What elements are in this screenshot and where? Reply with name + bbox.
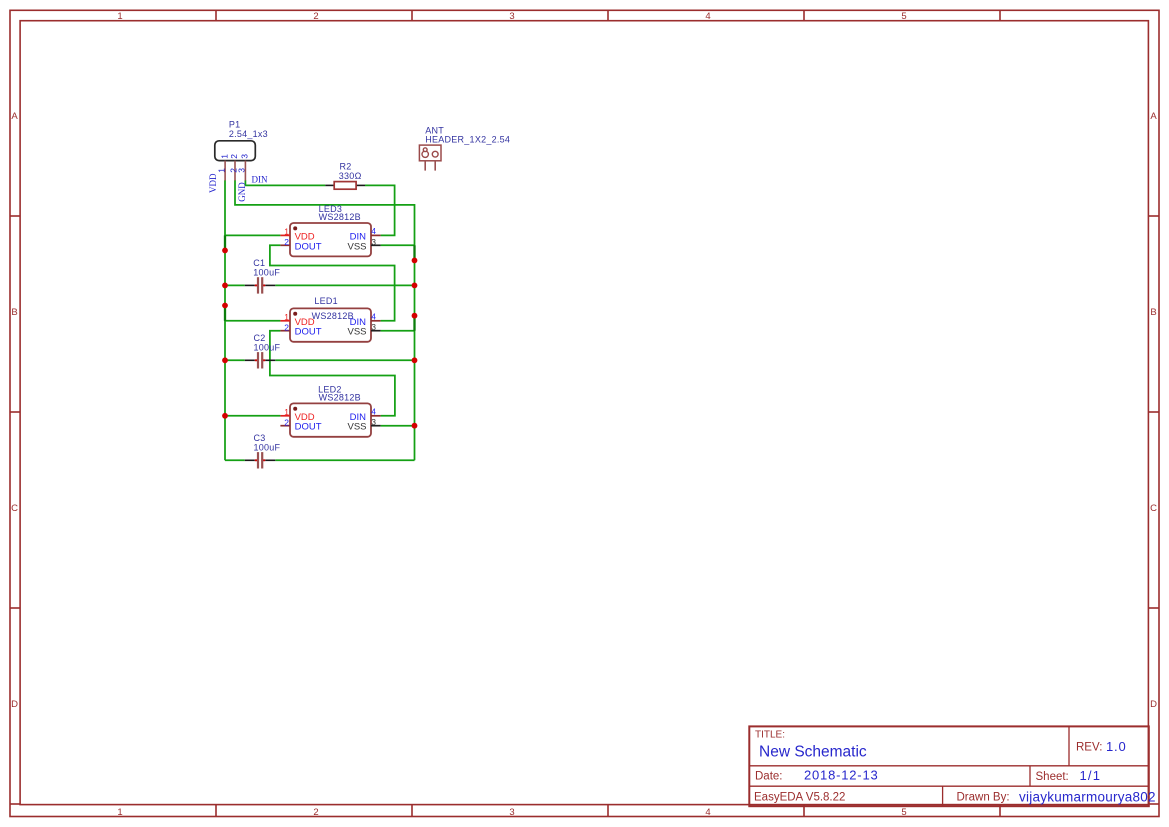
wire LED1 DOUT to LED2 DIN: [270, 331, 395, 416]
svg-text:TITLE:: TITLE:: [755, 730, 785, 741]
junction GND rail / LED1 VSS: [412, 313, 418, 319]
capacitor C2: [245, 333, 281, 369]
pin 3: [371, 425, 381, 427]
pin 3: [371, 330, 381, 332]
pin 3: [371, 244, 381, 246]
svg-text:C2: C2: [254, 333, 266, 343]
wire LED1 VSS to right rail: [381, 330, 415, 332]
wire LED2 VSS to right rail: [381, 425, 415, 427]
svg-text:100uF: 100uF: [254, 343, 281, 353]
pin 1: [424, 161, 426, 171]
svg-text:2.54_1x3: 2.54_1x3: [229, 129, 268, 139]
wire C2 row: [225, 359, 415, 361]
svg-text:VSS: VSS: [347, 327, 366, 338]
junction VDD rail / LED1 VDD: [222, 303, 228, 309]
pin 2: [434, 161, 436, 171]
svg-text:4: 4: [705, 807, 710, 818]
wire overlap on VDD rail at LED3: [224, 235, 226, 250]
pin 2: [280, 330, 290, 332]
wire C1 row: [225, 284, 415, 286]
svg-text:A: A: [11, 111, 18, 122]
pin 1: [280, 415, 290, 417]
junction GND rail / C1: [412, 283, 418, 289]
wire overlap on VDD rail at LED1: [224, 306, 226, 321]
svg-text:2: 2: [284, 237, 289, 247]
connector P1: [215, 120, 268, 181]
svg-text:4: 4: [705, 11, 710, 22]
svg-text:5: 5: [901, 11, 906, 22]
svg-text:3: 3: [371, 322, 376, 332]
svg-text:1: 1: [117, 11, 122, 22]
svg-text:4: 4: [371, 407, 376, 417]
svg-text:2: 2: [229, 154, 239, 159]
svg-text:DOUT: DOUT: [295, 422, 322, 433]
svg-text:VSS: VSS: [347, 241, 366, 252]
wire DIN from P1 pin3 to R2: [245, 180, 325, 185]
svg-text:2: 2: [284, 323, 289, 333]
pin 1: [224, 161, 226, 181]
svg-text:B: B: [11, 307, 17, 318]
svg-text:C: C: [1150, 503, 1157, 514]
junction VDD rail / C1: [222, 283, 228, 289]
svg-text:B: B: [1150, 307, 1156, 318]
svg-text:2018-12-13: 2018-12-13: [804, 767, 879, 782]
wire LED1 VDD pin1 to rail: [225, 320, 280, 322]
pin 2: [234, 161, 236, 181]
svg-text:P1: P1: [229, 120, 241, 130]
svg-text:C: C: [11, 503, 18, 514]
svg-text:3: 3: [237, 168, 247, 173]
connector ANT: [419, 125, 510, 170]
capacitor C3: [245, 433, 281, 469]
wire LED3 VSS to right rail: [381, 244, 415, 246]
svg-text:Date:: Date:: [755, 770, 783, 782]
svg-text:EasyEDA V5.8.22: EasyEDA V5.8.22: [754, 792, 845, 804]
resistor leads: [325, 184, 334, 186]
svg-text:3: 3: [371, 237, 376, 247]
svg-text:4: 4: [371, 312, 376, 322]
wire VDD rail from P1 pin1 down: [224, 180, 226, 460]
connector body: [215, 141, 256, 161]
svg-text:R2: R2: [340, 162, 352, 172]
wire overlap on GND rail at LED1: [413, 316, 415, 331]
svg-text:New Schematic: New Schematic: [759, 744, 867, 761]
svg-text:100uF: 100uF: [254, 442, 281, 452]
wire LED2 VDD pin1 to rail: [225, 415, 280, 417]
svg-text:2: 2: [313, 11, 318, 22]
svg-text:330Ω: 330Ω: [339, 171, 362, 181]
pin 1: [280, 320, 290, 322]
svg-text:DOUT: DOUT: [295, 241, 322, 252]
svg-text:WS2812B: WS2812B: [312, 311, 354, 321]
wire LED3 DOUT to LED1 DIN: [270, 245, 395, 320]
junction GND rail / LED3 VSS: [412, 258, 418, 264]
svg-text:1: 1: [216, 168, 226, 173]
svg-text:1: 1: [284, 227, 289, 237]
svg-text:4: 4: [371, 226, 376, 236]
pin 3: [244, 161, 246, 181]
svg-text:5: 5: [901, 807, 906, 818]
pin 2: [280, 244, 290, 246]
svg-text:1.0: 1.0: [1106, 739, 1126, 754]
svg-text:1: 1: [117, 807, 122, 818]
LED3 WS2812B: [280, 204, 380, 257]
wire C3 row: [225, 459, 415, 461]
svg-text:VSS: VSS: [347, 422, 366, 433]
svg-text:D: D: [1150, 699, 1157, 710]
wire overlap on GND rail at LED3: [413, 245, 415, 260]
pin 4: [371, 234, 381, 236]
junction VDD rail / LED3 VDD: [222, 248, 228, 254]
wire GND from P1 pin2 to right rail: [235, 180, 415, 460]
svg-text:A: A: [1150, 111, 1157, 122]
svg-text:VDD: VDD: [208, 173, 218, 193]
svg-text:WS2812B: WS2812B: [319, 393, 361, 403]
svg-text:DOUT: DOUT: [295, 327, 322, 338]
resistor R2: [325, 162, 365, 190]
svg-text:3: 3: [509, 807, 514, 818]
junction GND rail / LED2 VSS: [412, 423, 418, 429]
svg-text:3: 3: [509, 11, 514, 22]
svg-text:DIN: DIN: [252, 174, 268, 184]
wire LED3 VDD pin1 to rail: [225, 234, 280, 236]
svg-text:2: 2: [284, 418, 289, 428]
svg-text:WS2812B: WS2812B: [319, 212, 361, 222]
svg-text:3: 3: [371, 417, 376, 427]
junction VDD rail / C2: [222, 357, 228, 363]
svg-text:C1: C1: [253, 258, 265, 268]
pin 4: [371, 320, 381, 322]
svg-text:1: 1: [219, 154, 229, 159]
pin 4: [371, 415, 381, 417]
LED2 WS2812B: [280, 385, 380, 437]
svg-text:1/1: 1/1: [1080, 768, 1102, 783]
svg-text:REV:: REV:: [1076, 742, 1102, 754]
svg-text:3: 3: [240, 154, 250, 159]
title block: [749, 726, 1149, 806]
svg-text:2: 2: [313, 807, 318, 818]
svg-text:LED1: LED1: [314, 296, 338, 306]
capacitor C1: [245, 258, 281, 294]
wire R2 to LED3 DIN pin4: [365, 185, 395, 235]
svg-text:HEADER_1X2_2.54: HEADER_1X2_2.54: [425, 135, 510, 145]
LED1 WS2812B: [280, 296, 380, 342]
svg-text:100uF: 100uF: [253, 267, 280, 277]
svg-text:1: 1: [284, 312, 289, 322]
svg-text:D: D: [11, 699, 18, 710]
connector body: [419, 145, 441, 161]
svg-text:vijaykumarmourya802: vijaykumarmourya802: [1019, 789, 1156, 804]
svg-text:Sheet:: Sheet:: [1036, 771, 1069, 783]
pin 2: [280, 425, 290, 427]
svg-text:Drawn By:: Drawn By:: [957, 792, 1010, 804]
svg-text:1: 1: [284, 407, 289, 417]
pin 1: [280, 234, 290, 236]
junction VDD rail / LED2 VDD: [222, 413, 228, 419]
svg-text:GND: GND: [237, 182, 247, 202]
junction GND rail / C2: [412, 357, 418, 363]
